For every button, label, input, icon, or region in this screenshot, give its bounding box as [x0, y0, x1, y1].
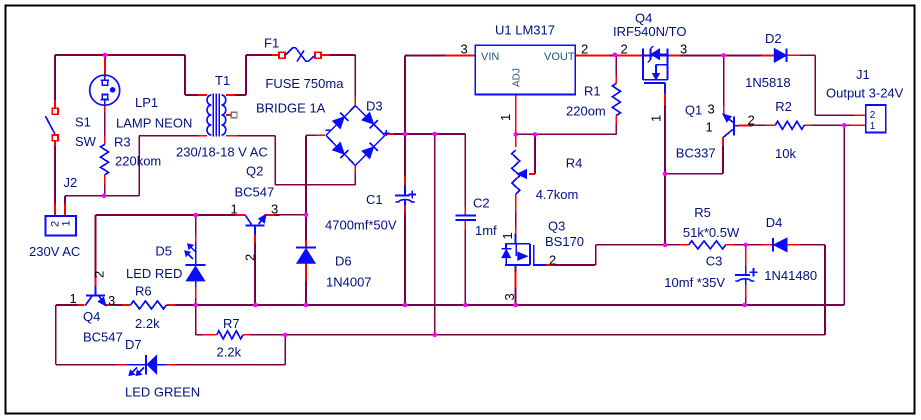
svg-text:BC337: BC337 [676, 146, 716, 161]
svg-text:220kom: 220kom [115, 154, 161, 169]
svg-text:BC547: BC547 [83, 330, 123, 345]
svg-text:R4: R4 [566, 156, 583, 171]
svg-text:2.2k: 2.2k [135, 316, 160, 331]
svg-text:10mf *35V: 10mf *35V [664, 275, 725, 290]
svg-text:C2: C2 [473, 196, 490, 211]
svg-text:FUSE 750ma: FUSE 750ma [265, 76, 344, 91]
svg-text:2: 2 [748, 113, 755, 128]
svg-text:230V AC: 230V AC [29, 244, 80, 259]
svg-text:R1: R1 [584, 84, 601, 99]
svg-text:J1: J1 [856, 67, 870, 82]
svg-text:3: 3 [502, 293, 517, 300]
svg-text:3: 3 [108, 293, 115, 308]
svg-text:1N4007: 1N4007 [326, 275, 372, 290]
svg-text:BC547: BC547 [235, 185, 275, 200]
svg-text:2: 2 [870, 110, 876, 121]
svg-text:1: 1 [706, 120, 713, 135]
svg-text:2: 2 [549, 253, 556, 268]
svg-text:LED GREEN: LED GREEN [125, 385, 200, 400]
svg-text:VOUT: VOUT [544, 51, 575, 63]
svg-text:1N41480: 1N41480 [764, 268, 817, 283]
svg-text:LAMP NEON: LAMP NEON [116, 116, 192, 131]
svg-text:D7: D7 [125, 337, 142, 352]
svg-text:SW: SW [75, 134, 97, 149]
svg-text:1: 1 [649, 115, 664, 122]
svg-text:1: 1 [231, 202, 238, 217]
svg-text:R7: R7 [223, 316, 240, 331]
svg-text:T1: T1 [215, 73, 230, 88]
svg-text:51k*0.5W: 51k*0.5W [683, 225, 740, 240]
svg-text:R6: R6 [135, 284, 152, 299]
svg-text:S1: S1 [75, 115, 91, 130]
svg-text:2.2k: 2.2k [217, 345, 242, 360]
svg-text:LP1: LP1 [135, 95, 158, 110]
svg-text:D6: D6 [335, 254, 352, 269]
svg-text:Output 3-24V: Output 3-24V [826, 86, 904, 101]
svg-text:1: 1 [70, 291, 77, 306]
svg-text:2: 2 [581, 42, 588, 57]
svg-text:Q1: Q1 [685, 103, 702, 118]
svg-text:1: 1 [870, 121, 876, 132]
svg-text:1N5818: 1N5818 [745, 75, 791, 90]
svg-text:IRF540N/TO: IRF540N/TO [613, 24, 686, 39]
svg-text:2: 2 [621, 42, 628, 57]
svg-text:3: 3 [461, 42, 468, 57]
svg-text:BRIDGE 1A: BRIDGE 1A [256, 101, 326, 116]
svg-text:ADJ: ADJ [512, 68, 523, 87]
svg-text:1: 1 [498, 114, 513, 121]
svg-text:10k: 10k [775, 146, 796, 161]
svg-text:C1: C1 [366, 192, 383, 207]
svg-text:3: 3 [708, 102, 715, 117]
svg-text:U1 LM317: U1 LM317 [495, 23, 555, 38]
svg-text:D2: D2 [765, 31, 782, 46]
svg-text:230/18-18 V AC: 230/18-18 V AC [176, 145, 268, 160]
svg-text:Q3: Q3 [548, 219, 565, 234]
svg-text:1: 1 [60, 220, 72, 226]
svg-text:220om: 220om [566, 104, 606, 119]
svg-text:4.7kom: 4.7kom [536, 187, 579, 202]
svg-text:J2: J2 [64, 175, 78, 190]
svg-text:R3: R3 [114, 135, 131, 150]
svg-text:Q4: Q4 [83, 309, 100, 324]
svg-text:D3: D3 [366, 99, 383, 114]
svg-text:C3: C3 [706, 254, 723, 269]
svg-text:2: 2 [91, 271, 106, 278]
svg-text:2: 2 [243, 254, 258, 261]
svg-text:1mf: 1mf [475, 223, 497, 238]
svg-text:4700mf*50V: 4700mf*50V [325, 218, 397, 233]
svg-text:D4: D4 [766, 215, 783, 230]
svg-text:3: 3 [271, 202, 278, 217]
svg-text:F1: F1 [264, 36, 279, 51]
svg-text:VIN: VIN [481, 51, 499, 63]
svg-text:1: 1 [500, 232, 515, 239]
svg-text:Q2: Q2 [246, 164, 263, 179]
svg-text:BS170: BS170 [545, 234, 584, 249]
svg-text:3: 3 [680, 42, 687, 57]
svg-text:D5: D5 [155, 244, 172, 259]
svg-text:R2: R2 [775, 99, 792, 114]
svg-text:R5: R5 [694, 205, 711, 220]
svg-text:LED RED: LED RED [126, 266, 182, 281]
